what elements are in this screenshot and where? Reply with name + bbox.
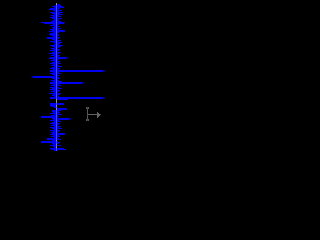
waveform bars (31, 4, 106, 151)
background (0, 0, 113, 161)
center axis line (56, 3, 57, 151)
cursor icon: I-bar with right arrow (86, 107, 101, 121)
